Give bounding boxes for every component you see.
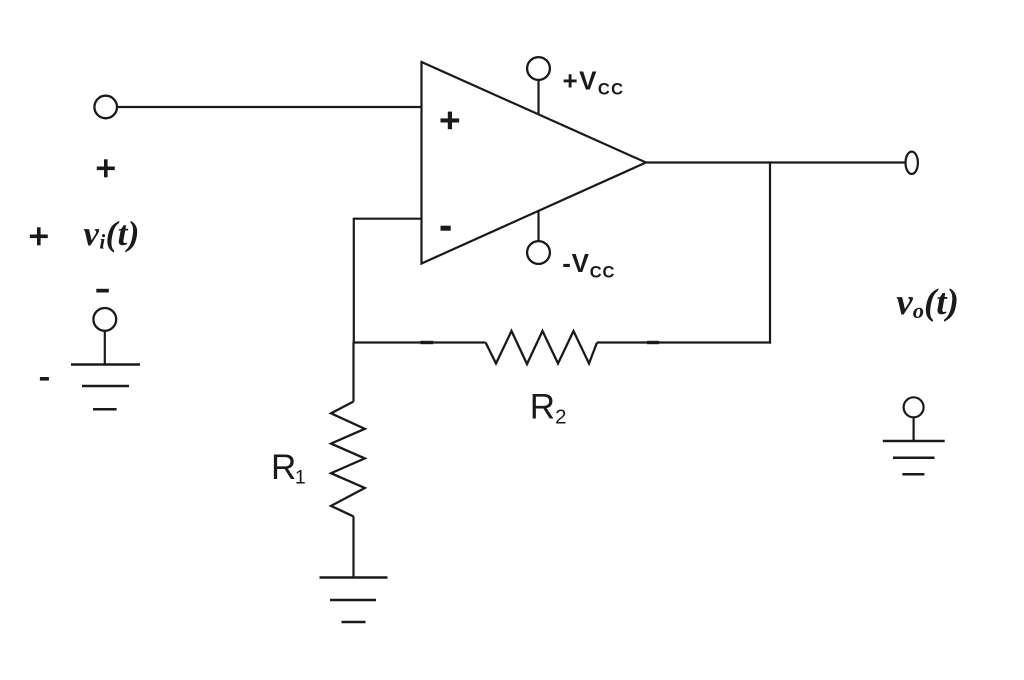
feedback wire horizontal left of R2	[353, 341, 486, 343]
op-amp U1	[422, 62, 647, 264]
wire node down to R1	[352, 343, 354, 402]
output ground terminal circle (right)	[904, 397, 924, 417]
op-amp - label	[441, 226, 451, 231]
+Vcc stem wire	[537, 80, 539, 115]
svg-text:vo(t): vo(t)	[896, 282, 959, 323]
+Vcc terminal circle	[527, 57, 550, 80]
output terminal ellipse	[906, 152, 918, 174]
ground (right)	[883, 441, 945, 474]
+ label above vi	[97, 159, 115, 177]
+ label far left	[30, 227, 48, 245]
-Vcc terminal circle	[527, 241, 550, 264]
resistor R1	[331, 402, 365, 517]
input terminal circle	[94, 96, 117, 119]
feedback wire vertical right	[769, 163, 771, 344]
op-amp + label	[441, 112, 460, 130]
wire to inverting input (horizontal)	[353, 218, 422, 220]
input source terminal circle (left)	[93, 308, 116, 331]
junction tick right	[647, 341, 659, 344]
-Vcc stem wire	[537, 211, 539, 242]
wire node to inverting input (vertical)	[353, 219, 355, 344]
- label far left	[40, 377, 49, 381]
stem circle to ground (right)	[912, 417, 914, 441]
- label below vi	[96, 289, 109, 293]
output wire	[646, 161, 906, 163]
stem circle to ground (left)	[104, 331, 106, 365]
ground (bottom center)	[320, 578, 388, 623]
junction tick left	[421, 341, 434, 344]
feedback wire horizontal right of R2	[597, 341, 771, 343]
svg-text:vi(t): vi(t)	[83, 214, 139, 254]
ground (left)	[71, 365, 140, 410]
wire input to op-amp +	[118, 106, 422, 108]
wire R1 to ground	[352, 516, 354, 577]
resistor R2	[486, 331, 597, 364]
